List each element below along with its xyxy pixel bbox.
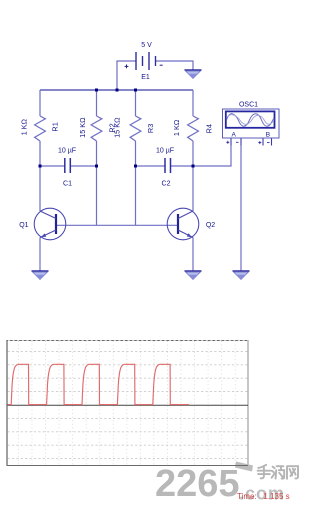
wire R1 column (39, 90, 41, 211)
node C1 left junction (39, 165, 42, 168)
resistor R3 (112, 116, 155, 141)
pin B+ (258, 139, 263, 146)
oscilloscope OSC1 (223, 101, 280, 138)
svg-text:C2: C2 (162, 181, 171, 188)
svg-text:15 KΩ: 15 KΩ (78, 117, 87, 138)
svg-text:Time: 1.135 s: Time: 1.135 s (237, 492, 290, 501)
svg-text:R3: R3 (146, 124, 155, 133)
wire battery feed (117, 61, 193, 90)
ground Q1 (32, 271, 49, 280)
node C2 left junction (134, 165, 137, 168)
svg-text:Q1: Q1 (19, 222, 28, 229)
svg-text:2265: 2265 (155, 463, 240, 505)
svg-text:B: B (266, 131, 270, 138)
wire oscilloscope A+ (193, 146, 231, 167)
node rail battery junction (116, 89, 119, 92)
battery E1 (125, 42, 163, 81)
capacitor C2 (156, 148, 174, 188)
wire Q2 emitter to ground (192, 238, 194, 272)
svg-text:1 KΩ: 1 KΩ (172, 119, 181, 136)
wire base rail (56, 224, 178, 226)
wire R4 column (192, 90, 194, 211)
transistor Q1 (19, 208, 66, 240)
svg-text:A: A (232, 131, 237, 138)
pin B- (267, 139, 272, 146)
svg-text:R4: R4 (204, 124, 213, 133)
svg-text:15 KΩ: 15 KΩ (112, 117, 121, 138)
pin A- (236, 139, 241, 146)
wire C1 row (40, 165, 97, 167)
svg-text:OSC1: OSC1 (239, 101, 258, 108)
watermark 2265 (155, 462, 285, 506)
node rail R3 junction (134, 89, 137, 92)
waveform panel bottom edge (7, 465, 248, 467)
capacitor C1 (58, 148, 76, 188)
svg-text:1 KΩ: 1 KΩ (19, 118, 28, 135)
wire top rail (40, 89, 193, 91)
wire Q1 emitter to ground (39, 238, 41, 272)
pin A+ (226, 139, 231, 146)
time axis (8, 404, 249, 406)
resistor R1 (19, 116, 59, 141)
svg-text:10 µF: 10 µF (58, 148, 76, 155)
svg-text:10 µF: 10 µF (156, 148, 174, 155)
wire R3 column (135, 90, 137, 225)
red square-wave trace (8, 364, 190, 404)
svg-text:R1: R1 (50, 122, 59, 131)
wire C2 row (136, 165, 194, 167)
node C1 right junction (95, 165, 98, 168)
watermark chinese characters (258, 465, 298, 479)
wire oscilloscope A- (240, 146, 242, 272)
waveform panel (7, 340, 248, 466)
node C2 right junction (192, 165, 195, 168)
wire R2 column (96, 90, 98, 225)
ground battery (185, 70, 202, 79)
transistor Q2 (167, 208, 215, 240)
node rail R2 junction (95, 89, 98, 92)
ground oscilloscope A- (233, 271, 250, 280)
resistor R4 (172, 116, 214, 141)
svg-text:Q2: Q2 (206, 222, 215, 229)
ground Q2 (185, 271, 202, 280)
svg-text:5 V: 5 V (141, 42, 152, 49)
svg-text:C1: C1 (63, 181, 72, 188)
svg-text:E1: E1 (141, 74, 150, 81)
resistor R2 (78, 116, 117, 141)
